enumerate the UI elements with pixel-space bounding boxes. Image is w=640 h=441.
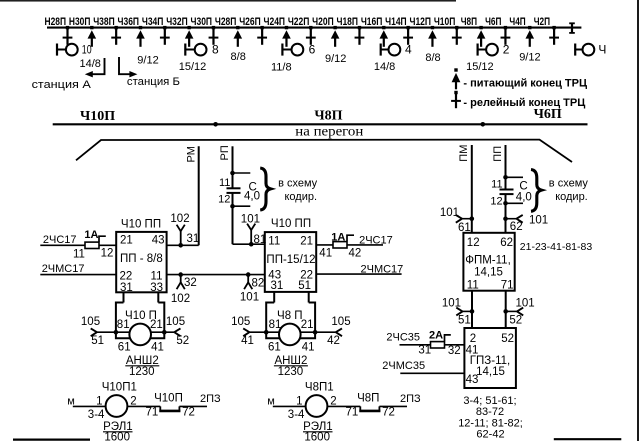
svg-text:101: 101 bbox=[240, 291, 259, 303]
svg-text:12: 12 bbox=[101, 248, 114, 260]
svg-text:12: 12 bbox=[218, 194, 230, 206]
wire: stub to coding circuit lower bbox=[233, 205, 251, 207]
svg-text:9/12: 9/12 bbox=[519, 52, 540, 64]
svg-text:кодир.: кодир. bbox=[285, 191, 318, 203]
svg-text:11: 11 bbox=[268, 235, 280, 247]
capacitor C 4,0 on РП bbox=[227, 187, 241, 189]
wire: stub to coding circuit lower right bbox=[506, 202, 524, 204]
svg-text:105: 105 bbox=[231, 316, 250, 328]
wire: feeder РП upper bbox=[232, 146, 234, 188]
terminal fork 32/102 bbox=[178, 272, 183, 277]
svg-text:Ч16П: Ч16П bbox=[361, 16, 383, 28]
svg-text:21: 21 bbox=[300, 235, 313, 247]
svg-text:2ЧС17: 2ЧС17 bbox=[43, 234, 77, 246]
svg-text:81: 81 bbox=[117, 319, 130, 331]
wire box2 pin 22 to 2ЧМС17 bbox=[316, 273, 401, 275]
feeding end of TRC symbol at x=92 bbox=[90, 26, 93, 29]
svg-text:8/8: 8/8 bbox=[231, 51, 246, 63]
svg-text:15/12: 15/12 bbox=[179, 61, 207, 73]
svg-text:52: 52 bbox=[176, 335, 189, 347]
svg-text:1230: 1230 bbox=[129, 366, 155, 378]
svg-text:32: 32 bbox=[184, 277, 197, 289]
svg-text:Ч30П: Ч30П bbox=[191, 16, 213, 28]
svg-text:Ч34П: Ч34П bbox=[142, 16, 164, 28]
relay box ФПМ-11,14,15 bbox=[463, 233, 514, 291]
svg-text:31: 31 bbox=[271, 280, 284, 292]
terminal fork 102/31 bbox=[178, 243, 183, 248]
svg-text:Ч14П: Ч14П bbox=[385, 16, 407, 28]
feeding end of TRC symbol at x=140 bbox=[139, 26, 142, 29]
relay end of TRC symbol at x=262 bbox=[260, 26, 263, 29]
feeding end of TRC symbol at x=481 bbox=[479, 26, 482, 29]
svg-text:72: 72 bbox=[182, 406, 195, 418]
svg-text:2ЧС35: 2ЧС35 bbox=[386, 331, 420, 343]
terminal fork 101/51 bbox=[470, 309, 475, 314]
svg-text:105: 105 bbox=[331, 316, 350, 328]
svg-text:кодир.: кодир. bbox=[555, 191, 588, 203]
wire: station track rail line bbox=[47, 27, 581, 29]
svg-text:ФПМ-11,: ФПМ-11, bbox=[465, 255, 511, 267]
svg-text:2А: 2А bbox=[429, 330, 443, 342]
relay end of TRC symbol at x=359 bbox=[358, 26, 361, 29]
svg-text:21-23-41-81-83: 21-23-41-81-83 bbox=[520, 241, 593, 253]
svg-text:- релейный конец ТРЦ: - релейный конец ТРЦ bbox=[463, 97, 585, 109]
signal 2 bbox=[477, 44, 479, 56]
wire ФПМ pin 11 to ГПЗ pin 2 bbox=[471, 291, 473, 328]
node: junction Ч10П/Ч8П bbox=[213, 122, 218, 127]
svg-text:Ч10П: Ч10П bbox=[434, 16, 456, 28]
svg-text:1А: 1А bbox=[331, 231, 345, 243]
svg-text:Ч8П: Ч8П bbox=[357, 393, 379, 405]
svg-text:15/12: 15/12 bbox=[466, 61, 494, 73]
terminal fork 101/62 on ПП bbox=[503, 216, 508, 221]
svg-text:2ЧМС35: 2ЧМС35 bbox=[382, 360, 425, 372]
svg-text:РП: РП bbox=[219, 145, 231, 160]
svg-text:Ч10П: Ч10П bbox=[80, 109, 115, 124]
svg-text:62-42: 62-42 bbox=[476, 429, 504, 441]
svg-text:ПП - 8/8: ПП - 8/8 bbox=[120, 253, 163, 265]
svg-text:Ч6П: Ч6П bbox=[534, 107, 562, 122]
svg-text:4,0: 4,0 bbox=[244, 191, 260, 203]
feeding end of TRC symbol at x=189 bbox=[187, 26, 190, 29]
node on РП pin 12 bbox=[230, 204, 235, 209]
signal 10 bbox=[56, 44, 58, 56]
svg-text:станция А: станция А bbox=[32, 79, 92, 91]
svg-text:43: 43 bbox=[152, 235, 165, 247]
node: junction Ч8П/Ч6П bbox=[481, 122, 486, 127]
terminal fork 101/61 on ПМ bbox=[470, 216, 475, 221]
svg-text:в схему: в схему bbox=[549, 178, 589, 190]
svg-text:105: 105 bbox=[166, 316, 185, 328]
wire: stub to coding circuit upper bbox=[233, 172, 251, 174]
fuse 1А bbox=[85, 242, 99, 248]
svg-text:11/8: 11/8 bbox=[271, 61, 292, 73]
svg-text:101: 101 bbox=[241, 214, 260, 226]
svg-text:1: 1 bbox=[96, 395, 102, 407]
svg-text:в схему: в схему bbox=[278, 178, 318, 190]
svg-text:Ч38П: Ч38П bbox=[93, 16, 115, 28]
svg-text:62: 62 bbox=[510, 221, 523, 233]
wire ФПМ pin 71 to ГПЗ pin 52 bbox=[505, 291, 507, 328]
insulated joint symbol at entrance signal bbox=[571, 23, 573, 33]
svg-text:11: 11 bbox=[73, 248, 85, 260]
relay end of TRC symbol at x=505 bbox=[504, 26, 507, 29]
svg-text:3-4: 3-4 bbox=[288, 409, 305, 421]
wire: feeder ПП upper bbox=[505, 145, 507, 190]
relay box ПП-15/12 bbox=[265, 232, 316, 292]
svg-text:33: 33 bbox=[150, 282, 163, 294]
svg-text:61: 61 bbox=[118, 341, 131, 353]
fuse 2А bbox=[431, 342, 445, 348]
entrance signal Ч bbox=[574, 44, 576, 56]
svg-text:42: 42 bbox=[327, 335, 340, 347]
svg-text:32: 32 bbox=[448, 345, 461, 357]
wire: feeder РМ bbox=[198, 146, 200, 245]
svg-text:51: 51 bbox=[298, 280, 311, 292]
svg-text:ПМ: ПМ bbox=[458, 145, 470, 162]
svg-text:ПП-15/12: ПП-15/12 bbox=[266, 254, 315, 266]
svg-text:Ч10П1: Ч10П1 bbox=[102, 382, 137, 394]
svg-text:51: 51 bbox=[91, 335, 104, 347]
relay end of TRC symbol at x=165 bbox=[163, 26, 166, 29]
svg-text:101: 101 bbox=[529, 214, 548, 226]
svg-text:12: 12 bbox=[467, 237, 480, 249]
svg-text:Ч8П1: Ч8П1 bbox=[305, 382, 334, 394]
svg-text:на перегон: на перегон bbox=[295, 124, 363, 139]
wire 2ЧМС17 to box1 pin 22 bbox=[40, 274, 116, 276]
station B boundary bracket with arrow bbox=[119, 57, 131, 74]
feeding end of TRC symbol at x=238 bbox=[236, 26, 239, 29]
relay end of TRC symbol at x=457 bbox=[455, 26, 458, 29]
svg-text:101: 101 bbox=[442, 297, 461, 309]
svg-text:2ЧМС17: 2ЧМС17 bbox=[42, 263, 85, 275]
relay box ПП-8/8 bbox=[116, 232, 166, 292]
svg-text:43: 43 bbox=[466, 374, 479, 386]
svg-text:51: 51 bbox=[458, 314, 471, 326]
svg-text:11: 11 bbox=[151, 271, 163, 283]
svg-text:12: 12 bbox=[490, 195, 502, 207]
svg-text:102: 102 bbox=[171, 293, 190, 305]
wire: feeder ПП lower bbox=[505, 194, 507, 233]
svg-text:Ч8П: Ч8П bbox=[461, 16, 477, 28]
wire box2 pin 21 to 2ЧС17 bbox=[316, 244, 333, 246]
svg-text:Ч10 ПП: Ч10 ПП bbox=[121, 218, 161, 230]
svg-text:42: 42 bbox=[349, 247, 362, 259]
svg-text:ПП: ПП bbox=[492, 146, 504, 162]
wire 2ЧС35 to ГПЗ pin 41 bbox=[400, 344, 431, 346]
terminal fork 101/52 bbox=[503, 309, 508, 314]
svg-text:14,15: 14,15 bbox=[476, 366, 505, 378]
svg-text:31: 31 bbox=[418, 344, 431, 356]
signal 8 bbox=[184, 44, 186, 56]
wire: track line Ч10П-Ч8П-Ч6П bbox=[53, 123, 588, 125]
terminal fork 101/81 bbox=[249, 242, 254, 247]
signal 6 bbox=[281, 44, 283, 56]
svg-text:Ч8П: Ч8П bbox=[314, 109, 342, 124]
wire РП feeder to box2 pin 11 bbox=[233, 243, 265, 245]
svg-text:2: 2 bbox=[503, 43, 510, 57]
relay Ч8 П (АНШ2 1230) with wires and terminals 105-41 / 105-42 bbox=[273, 292, 275, 303]
feeding end of TRC symbol at x=530 bbox=[528, 26, 531, 29]
svg-text:1230: 1230 bbox=[278, 366, 304, 378]
svg-text:81: 81 bbox=[269, 319, 282, 331]
svg-text:10: 10 bbox=[82, 43, 92, 57]
svg-text:14/8: 14/8 bbox=[79, 58, 100, 70]
svg-text:41: 41 bbox=[319, 247, 332, 259]
svg-text:41: 41 bbox=[302, 341, 315, 353]
svg-text:- питающий конец ТРЦ: - питающий конец ТРЦ bbox=[463, 77, 587, 89]
svg-text:4,0: 4,0 bbox=[516, 191, 532, 203]
feeding end of TRC symbol at x=432 bbox=[431, 26, 434, 29]
svg-text:Ч10П: Ч10П bbox=[154, 393, 183, 405]
svg-text:1600: 1600 bbox=[104, 431, 130, 441]
svg-text:52: 52 bbox=[509, 314, 522, 326]
svg-text:м: м bbox=[67, 396, 75, 408]
svg-text:72: 72 bbox=[382, 406, 395, 418]
svg-text:2ПЗ: 2ПЗ bbox=[400, 393, 421, 405]
svg-text:11: 11 bbox=[491, 178, 502, 190]
svg-text:РМ: РМ bbox=[186, 146, 198, 162]
svg-text:Ч4П: Ч4П bbox=[509, 16, 525, 28]
svg-text:Ч18П: Ч18П bbox=[337, 16, 359, 28]
svg-text:Ч6П: Ч6П bbox=[485, 16, 501, 28]
svg-text:Ч12П: Ч12П bbox=[410, 16, 432, 28]
relay end of TRC symbol at x=311 bbox=[309, 26, 312, 29]
svg-text:22: 22 bbox=[120, 271, 133, 283]
svg-text:14,15: 14,15 bbox=[474, 267, 503, 279]
wire box1 pin 11 to box2 pin 43 bbox=[167, 274, 265, 276]
contact Ч10П of relay, to 2ПЗ bbox=[127, 405, 160, 407]
svg-text:3-4: 3-4 bbox=[88, 409, 105, 421]
capacitor C 4,0 on ПП bbox=[500, 189, 514, 191]
svg-text:101: 101 bbox=[440, 207, 459, 219]
svg-text:Ч28П: Ч28П bbox=[215, 16, 237, 28]
svg-text:Ч24П: Ч24П bbox=[264, 16, 286, 28]
svg-text:3-4; 51-61;: 3-4; 51-61; bbox=[463, 395, 516, 407]
svg-text:Н28П: Н28П bbox=[45, 16, 67, 28]
relay box ГПЗ-11,14,15 bbox=[464, 328, 516, 388]
svg-text:6: 6 bbox=[309, 43, 316, 57]
station A boundary bracket with arrow bbox=[91, 58, 105, 74]
svg-text:Ч20П: Ч20П bbox=[312, 16, 334, 28]
svg-text:Ч32П: Ч32П bbox=[166, 16, 188, 28]
contact Ч8П of relay, to 2ПЗ bbox=[327, 405, 360, 407]
svg-text:Н30П: Н30П bbox=[69, 16, 91, 28]
svg-text:82: 82 bbox=[252, 278, 265, 290]
svg-text:61: 61 bbox=[268, 341, 281, 353]
svg-text:м: м bbox=[267, 396, 275, 408]
svg-text:11: 11 bbox=[467, 280, 479, 292]
svg-text:11: 11 bbox=[219, 177, 230, 189]
svg-text:102: 102 bbox=[170, 213, 189, 225]
wire: stub to coding circuit upper right bbox=[506, 176, 524, 178]
svg-text:41: 41 bbox=[241, 335, 254, 347]
node on ПП pin 11 bbox=[503, 175, 508, 180]
svg-text:1: 1 bbox=[296, 395, 302, 407]
svg-text:4: 4 bbox=[405, 43, 412, 57]
svg-text:21: 21 bbox=[150, 319, 163, 331]
legend symbol: relay end of TRC bbox=[454, 91, 457, 94]
relay end of TRC symbol at x=408 bbox=[406, 26, 409, 29]
wire box1 pin 43 to РМ feeder bbox=[167, 244, 199, 246]
relay end of TRC symbol at x=554 bbox=[552, 26, 555, 29]
node on ПП pin 12 bbox=[503, 201, 508, 206]
svg-text:101: 101 bbox=[516, 297, 535, 309]
svg-text:71: 71 bbox=[501, 280, 514, 292]
wire: feeder РП lower bbox=[232, 193, 234, 244]
wire 2ЧС17 to box1 pin 21 bbox=[40, 244, 85, 246]
legend symbol: feeding end of TRC bbox=[454, 68, 457, 71]
svg-text:105: 105 bbox=[81, 316, 100, 328]
svg-text:71: 71 bbox=[346, 406, 359, 418]
svg-text:21: 21 bbox=[301, 319, 314, 331]
svg-text:41: 41 bbox=[151, 341, 164, 353]
svg-text:Ч26П: Ч26П bbox=[239, 16, 261, 28]
feeding end of TRC symbol at x=335 bbox=[333, 26, 336, 29]
feeding end of TRC symbol at x=384 bbox=[382, 26, 385, 29]
relay end of TRC symbol at x=116 bbox=[114, 26, 117, 29]
svg-text:21: 21 bbox=[120, 235, 133, 247]
relay end of TRC symbol at x=68 bbox=[66, 26, 69, 29]
relay end of TRC symbol at x=213 bbox=[212, 26, 215, 29]
svg-text:Ч2П: Ч2П bbox=[534, 16, 550, 28]
svg-text:14/8: 14/8 bbox=[374, 61, 395, 73]
relay Ч10 П (АНШ2 1230) with wires and terminals 105-51 / 105-52 bbox=[123, 292, 125, 302]
svg-text:Ч: Ч bbox=[598, 43, 606, 57]
svg-text:Ч36П: Ч36П bbox=[118, 16, 140, 28]
svg-text:1600: 1600 bbox=[304, 431, 330, 441]
svg-text:1А: 1А bbox=[84, 229, 98, 241]
svg-text:Ч10 ПП: Ч10 ПП bbox=[271, 218, 311, 230]
node on РП pin 11 bbox=[230, 171, 235, 176]
svg-text:2ЧС17: 2ЧС17 bbox=[359, 234, 393, 246]
brace to coding circuit bbox=[260, 168, 270, 210]
svg-text:52: 52 bbox=[501, 333, 514, 345]
svg-text:31: 31 bbox=[187, 233, 200, 245]
brace to coding circuit right bbox=[531, 170, 541, 212]
svg-text:2ПЗ: 2ПЗ bbox=[200, 393, 221, 405]
svg-text:8/8: 8/8 bbox=[425, 52, 440, 64]
wire: feeder ПМ bbox=[471, 145, 473, 233]
terminal fork 82/101 bbox=[246, 272, 251, 277]
svg-text:9/12: 9/12 bbox=[325, 53, 346, 65]
svg-text:71: 71 bbox=[146, 406, 159, 418]
fuse 1А right bbox=[333, 242, 347, 248]
svg-text:станция Б: станция Б bbox=[127, 76, 180, 88]
svg-text:8: 8 bbox=[212, 43, 219, 57]
wire: cable run to на перегон (trapezoid) bbox=[76, 140, 572, 162]
feeding end of TRC symbol at x=286 bbox=[285, 26, 288, 29]
svg-text:Ч22П: Ч22П bbox=[288, 16, 310, 28]
svg-text:ГПЗ-11,: ГПЗ-11, bbox=[470, 355, 510, 367]
svg-text:83-72: 83-72 bbox=[476, 406, 504, 418]
signal 4 bbox=[380, 44, 382, 56]
svg-text:9/12: 9/12 bbox=[137, 55, 158, 67]
svg-text:2ЧМС17: 2ЧМС17 bbox=[361, 263, 404, 275]
svg-text:31: 31 bbox=[120, 282, 133, 294]
svg-text:62: 62 bbox=[500, 237, 513, 249]
wire 2ЧМС35 to ГПЗ pin 43 bbox=[400, 372, 464, 374]
